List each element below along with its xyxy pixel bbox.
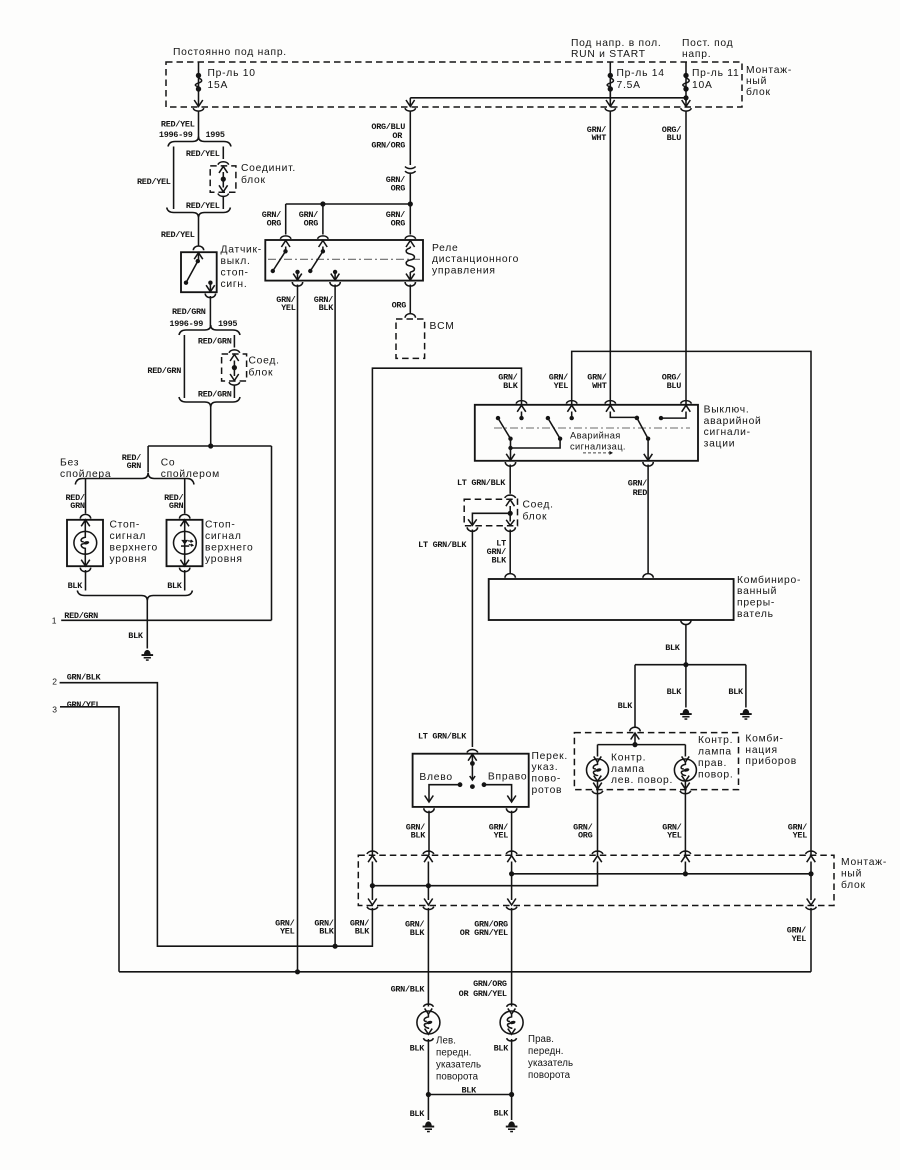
svg-text:LT GRN/BLK: LT GRN/BLK: [418, 732, 467, 742]
Соед. блок dashed box (hazard): [464, 499, 517, 526]
svg-text:блок: блок: [249, 366, 274, 378]
wire RED/YEL from fuse 10: [198, 111, 200, 138]
svg-text:ротов: ротов: [532, 785, 563, 796]
right stop lamp box: [167, 520, 203, 566]
svg-text:преры-: преры-: [737, 598, 775, 609]
brake switch blade: [186, 261, 198, 283]
svg-text:Вправо: Вправо: [488, 772, 527, 783]
svg-text:BLK: BLK: [410, 1043, 426, 1053]
hazard stub GRN/YEL: [571, 412, 573, 419]
svg-text:Влево: Влево: [419, 772, 452, 783]
svg-text:Со: Со: [161, 458, 176, 469]
wire: left drop to spoiler split: [147, 446, 149, 472]
hazard small dashed arrow: [583, 452, 613, 454]
bus B drops: [371, 862, 373, 901]
split brace 1996-99/1995: [168, 137, 231, 147]
svg-text:RED/YEL: RED/YEL: [137, 177, 171, 187]
node: RED/GRN distribution dot: [208, 443, 213, 448]
svg-text:YEL: YEL: [280, 927, 295, 937]
svg-text:верхнего: верхнего: [205, 542, 254, 553]
svg-text:RED/GRN: RED/GRN: [147, 366, 181, 376]
svg-text:RED/YEL: RED/YEL: [186, 149, 220, 159]
wire: right loop down to pin 1 line: [271, 446, 273, 620]
svg-text:зации: зации: [704, 439, 736, 450]
svg-text:Прав.: Прав.: [528, 1034, 554, 1045]
left loop wire GRN/BLK (to hazard): [372, 368, 521, 855]
connector at fuse box exit x=610.3: [606, 100, 615, 107]
svg-text:Контр.: Контр.: [611, 752, 646, 763]
right front turn signal lamp: [500, 1011, 523, 1034]
svg-text:1: 1: [52, 615, 57, 625]
wire GRN/BLK switch to junction block: [428, 811, 430, 856]
svg-text:блок: блок: [241, 174, 266, 186]
svg-text:блок: блок: [841, 879, 866, 891]
svg-text:ный: ный: [841, 869, 862, 880]
relay exit connector x=410.3: [405, 282, 415, 286]
hazard GRN/WHT feed to blade C: [610, 412, 637, 418]
entry connector x=428.4: [423, 851, 434, 854]
connector into turn signal switch: [467, 750, 478, 753]
relay entry wire middle GRN/ORG: [322, 204, 324, 235]
svg-text:Соединит.: Соединит.: [241, 163, 296, 174]
svg-text:GRN/BLK: GRN/BLK: [391, 985, 426, 995]
connector into brake light switch: [193, 246, 203, 250]
connector into right stop lamp: [180, 514, 190, 518]
svg-text:RED/YEL: RED/YEL: [161, 120, 195, 130]
svg-text:YEL: YEL: [792, 934, 807, 944]
svg-text:YEL: YEL: [554, 381, 569, 391]
svg-text:поворота: поворота: [436, 1072, 479, 1083]
junction inside Соед. блок: [508, 511, 513, 516]
svg-text:RED/GRN: RED/GRN: [198, 336, 232, 346]
relay switch blade middle: [322, 247, 324, 252]
svg-text:1995: 1995: [206, 130, 225, 140]
svg-text:верхнего: верхнего: [110, 542, 159, 553]
exit connector x=511.6: [507, 899, 516, 906]
ground: right front turn signal: [508, 1121, 515, 1126]
svg-text:GRN: GRN: [127, 461, 142, 471]
svg-text:уровня: уровня: [205, 554, 243, 565]
svg-text:Соед.: Соед.: [249, 355, 280, 366]
relay entry wire left GRN/ORG: [285, 204, 287, 235]
svg-text:BLK: BLK: [665, 643, 681, 653]
instrument cluster dashed box Комбинация приборов: [574, 733, 738, 790]
svg-text:сигн.: сигн.: [221, 279, 248, 290]
svg-text:уровня: уровня: [110, 554, 148, 565]
junction inside Соед. блок: [232, 365, 237, 370]
flasher box Комбинированный прерыватель: [489, 579, 734, 620]
left stop lamp exit connector: [81, 560, 90, 566]
connector into hazard x=610.3: [605, 401, 616, 404]
pin2 junction dot: [333, 944, 338, 949]
wire GRN/WHT from fuse 14 to hazard: [609, 111, 611, 404]
BLK splice node: [683, 662, 688, 667]
wire BLK below right lamp: [511, 1039, 513, 1095]
svg-text:блок: блок: [746, 86, 771, 98]
split brace RED/GRN: [179, 325, 240, 335]
svg-text:Постоянно под напр.: Постоянно под напр.: [173, 47, 287, 58]
right indicator lamp Контр. лампа прав. повор.: [684, 745, 686, 757]
svg-text:OR: OR: [392, 131, 403, 141]
bus A drops: [511, 862, 513, 901]
cluster exit connector GRN/YEL: [681, 783, 690, 790]
svg-text:3: 3: [52, 704, 57, 714]
left contact GRN/BLK: [458, 782, 463, 787]
wire BLK to ground (right): [745, 665, 747, 708]
svg-text:GRN/ORG: GRN/ORG: [371, 141, 405, 151]
merge brace RED/YEL: [167, 208, 231, 218]
svg-text:OR GRN/YEL: OR GRN/YEL: [459, 989, 507, 999]
BCM dashed box: [396, 319, 425, 358]
fuse box: Монтажный блок (dashed): [166, 62, 742, 107]
wire RED/GRN to stop lamp node: [210, 407, 212, 446]
svg-text:BCM: BCM: [430, 321, 455, 332]
svg-text:2: 2: [52, 677, 57, 687]
svg-text:BLU: BLU: [667, 381, 682, 391]
relay switch blade left: [285, 247, 287, 252]
wire RED/YEL to brake switch: [198, 218, 200, 247]
svg-text:приборов: приборов: [745, 755, 797, 767]
wire GRN/YEL right loop lower: [810, 908, 812, 972]
svg-text:Контр.: Контр.: [698, 735, 733, 746]
svg-text:указатель: указатель: [528, 1058, 573, 1069]
hazard output wire LT GRN/BLK inside: [510, 448, 512, 460]
ground: flasher BLK right: [743, 709, 750, 714]
hazard ORG/BLU stub: [661, 412, 686, 419]
svg-text:BLK: BLK: [319, 303, 335, 313]
svg-text:напр.: напр.: [682, 49, 711, 60]
svg-text:Пр-ль 11: Пр-ль 11: [692, 68, 739, 79]
svg-text:Комбиниро-: Комбиниро-: [737, 574, 801, 586]
left stop lamp box: [67, 520, 103, 566]
relay entry wire right GRN/ORG: [409, 204, 411, 235]
wire 1995 branch lower: [222, 197, 224, 210]
entry connector x=372.4: [367, 851, 378, 854]
hazard stub GRN/BLK: [521, 412, 523, 419]
svg-text:сигнал: сигнал: [205, 531, 242, 542]
connector into cluster (BLK): [630, 727, 640, 731]
svg-text:BLK: BLK: [667, 687, 683, 697]
right loop wire GRN/YEL (to hazard): [572, 351, 811, 855]
svg-text:Соед.: Соед.: [523, 500, 554, 511]
wire ORG/BLU OR GRN/ORG drop from fuse block: [409, 111, 411, 165]
svg-text:пово-: пово-: [532, 774, 562, 785]
cluster BLK bus: [634, 733, 636, 745]
svg-text:1996-99: 1996-99: [159, 130, 193, 140]
exit connector x=428.4: [424, 899, 433, 906]
svg-text:1996-99: 1996-99: [169, 319, 203, 329]
svg-text:сигнал: сигнал: [110, 531, 147, 542]
svg-text:GRN/YEL: GRN/YEL: [67, 700, 101, 710]
connector into left stop lamp: [80, 514, 90, 518]
wire GRN/RED hazard to flasher: [647, 465, 649, 574]
svg-text:ный: ный: [746, 76, 767, 87]
wire BLK flasher output: [685, 625, 687, 665]
svg-text:Без: Без: [60, 458, 79, 469]
hazard blade C: [637, 418, 648, 439]
wire GRN/ORG OR GRN/YEL to right front turn signal: [511, 908, 513, 1007]
svg-text:Перек.: Перек.: [532, 751, 568, 762]
entry connector x=811: [806, 851, 817, 854]
svg-text:нация: нация: [745, 745, 777, 756]
split brace spoiler variants: [75, 473, 194, 485]
connector into hazard x=571.7: [566, 401, 577, 404]
right contact GRN/YEL: [482, 782, 487, 787]
svg-text:дистанционного: дистанционного: [432, 254, 519, 265]
entry connector x=511.6: [506, 851, 517, 854]
connector out right (LT GRN/BLK): [506, 520, 514, 526]
wire BLK to instrument cluster: [634, 665, 636, 727]
svg-text:повор.: повор.: [698, 769, 733, 780]
svg-text:ORG: ORG: [267, 218, 282, 228]
hazard blade A: [498, 418, 511, 439]
wire LT GRN/BLK to flasher: [509, 530, 511, 574]
svg-text:управления: управления: [432, 266, 496, 277]
wire GRN/YEL switch to junction block: [511, 811, 513, 856]
svg-text:Лев.: Лев.: [436, 1036, 456, 1047]
svg-text:ванный: ванный: [737, 586, 777, 597]
inline connector on ORG/BLU wire: [405, 167, 416, 169]
svg-text:BLK: BLK: [411, 831, 427, 841]
svg-text:WHT: WHT: [592, 133, 607, 143]
switch pole wire: [471, 754, 473, 763]
left stop lamp bulb: [81, 520, 90, 527]
svg-text:Монтаж-: Монтаж-: [746, 65, 792, 76]
svg-text:ORG: ORG: [391, 218, 406, 228]
wire RED/GRN 1996-99 branch: [183, 335, 185, 398]
switch arrow entering box: [194, 253, 203, 260]
hazard output link: [511, 439, 561, 448]
svg-text:GRN: GRN: [70, 501, 85, 511]
wire GRN/YEL relay to line3: [297, 285, 299, 972]
svg-text:Под напр. в пол.: Под напр. в пол.: [571, 38, 661, 49]
svg-text:BLK: BLK: [618, 701, 634, 711]
svg-text:Выключ.: Выключ.: [704, 404, 750, 415]
connector into Соед. блок: [229, 350, 240, 353]
svg-text:GRN/BLK: GRN/BLK: [67, 672, 102, 682]
right stop lamp bulb (with arrow): [180, 520, 189, 527]
connector into flasher (LT GRN/BLK): [505, 574, 515, 578]
svg-text:RUN и START: RUN и START: [571, 49, 646, 60]
svg-text:ORG: ORG: [392, 300, 407, 310]
hazard blade B: [548, 418, 560, 439]
Соединит. блок dashed box: [210, 166, 236, 192]
svg-text:10А: 10А: [692, 80, 713, 91]
wire to right stop lamp RED/GRN: [184, 479, 186, 514]
brake light switch box Датчик-выкл. стоп-сигн.: [181, 252, 217, 292]
pin3 junction dot: [295, 969, 300, 974]
wire 1995 branch upper: [222, 147, 224, 160]
svg-text:лампа: лампа: [698, 747, 732, 758]
wire GRN/BLK to left front turn signal: [427, 908, 429, 1007]
svg-text:BLK: BLK: [410, 1109, 426, 1119]
svg-text:BLK: BLK: [167, 581, 183, 591]
switch output arrow + connector: [206, 285, 215, 292]
svg-text:сигнали-: сигнали-: [704, 427, 751, 438]
wire RED/GRN below switch: [209, 296, 211, 327]
exit connector x=811: [807, 899, 816, 906]
Соед. блок dashed box (left): [222, 354, 247, 381]
connector out of Соед. блок: [230, 374, 239, 381]
ground: flasher BLK middle: [683, 709, 690, 714]
svg-text:Пр-ль 10: Пр-ль 10: [208, 68, 256, 79]
wire BLK to left ground: [427, 1095, 429, 1121]
svg-text:BLK: BLK: [461, 1085, 477, 1095]
svg-text:Датчик-: Датчик-: [221, 245, 263, 256]
svg-text:1995: 1995: [218, 319, 237, 329]
wire BLK to ground: [146, 601, 148, 649]
fuse F11 Пр-ль 11 10A: [685, 62, 687, 101]
svg-text:Стоп-: Стоп-: [205, 520, 236, 531]
svg-text:Аварийная: Аварийная: [570, 430, 621, 440]
svg-text:YEL: YEL: [281, 303, 296, 313]
svg-text:BLU: BLU: [667, 133, 682, 143]
wire RED/GRN 1995 branch lower: [233, 385, 235, 398]
ground: left front turn signal: [425, 1121, 432, 1126]
connector into hazard x=521.5: [516, 401, 527, 404]
wire LT GRN/BLK to turn signal switch: [471, 530, 473, 748]
svg-text:прав.: прав.: [698, 758, 727, 769]
relay output stub GRN/YEL: [295, 270, 299, 274]
svg-text:15А: 15А: [208, 80, 229, 91]
connector into relay x=322.9: [318, 236, 329, 239]
connector at fuse box exit x=410.3: [406, 100, 415, 107]
svg-text:RED/GRN: RED/GRN: [198, 389, 232, 399]
flasher output socket: [681, 620, 691, 625]
svg-text:YEL: YEL: [667, 831, 682, 841]
wire ORG relay to BCM: [409, 285, 411, 314]
svg-text:сигнализац.: сигнализац.: [570, 442, 626, 452]
svg-text:ORG: ORG: [391, 183, 406, 193]
svg-text:BLK: BLK: [319, 927, 335, 937]
junction inside Соединит. блок: [221, 177, 226, 182]
wire BLK below left lamp: [85, 570, 87, 591]
wire GRN/BLK left loop to pin2 node: [335, 908, 372, 946]
relay feed bus GRN/ORG: [286, 203, 411, 205]
svg-text:Стоп-: Стоп-: [110, 520, 141, 531]
svg-text:BLK: BLK: [68, 581, 84, 591]
right stop lamp exit connector: [180, 560, 189, 566]
wire BLK below left lamp: [427, 1039, 429, 1095]
cluster exit connector GRN/ORG: [593, 783, 602, 790]
hazard mechanical dash-dot link: [494, 427, 690, 429]
svg-text:BLK: BLK: [728, 687, 744, 697]
svg-text:указатель: указатель: [436, 1060, 481, 1071]
junction block dashed box Монтажный блок (lower): [358, 855, 834, 905]
brake switch output stub: [208, 281, 212, 285]
connector into Соед. блок (hazard): [505, 495, 516, 498]
merge brace RED/GRN: [179, 397, 240, 407]
svg-text:OR GRN/YEL: OR GRN/YEL: [460, 928, 508, 938]
connector at fuse box exit x=198.5: [194, 100, 203, 107]
relay coil: [409, 247, 411, 249]
svg-text:7.5А: 7.5А: [617, 80, 641, 91]
wire BLK to right ground: [511, 1095, 513, 1121]
cluster exit GRN/YEL: [684, 781, 686, 855]
connector at fuse box exit x=686: [682, 100, 691, 107]
svg-text:Монтаж-: Монтаж-: [841, 857, 887, 868]
svg-text:LT GRN/BLK: LT GRN/BLK: [457, 478, 506, 488]
svg-text:Пр-ль 14: Пр-ль 14: [617, 68, 665, 79]
merge brace BLK stop lamps: [77, 591, 192, 601]
svg-text:GRN: GRN: [169, 501, 184, 511]
svg-text:LT GRN/BLK: LT GRN/BLK: [418, 540, 467, 550]
connector into relay x=285.7: [280, 236, 291, 239]
svg-text:BLK: BLK: [494, 1043, 510, 1053]
svg-text:YEL: YEL: [793, 831, 808, 841]
connector into relay x=410.3: [405, 236, 416, 239]
fuse F10 Пр-ль 10 15A: [198, 62, 200, 101]
left front turn signal lamp: [417, 1011, 440, 1034]
wire LT GRN/BLK hazard to Соед. блок: [509, 465, 511, 494]
ground: stop lamps: [144, 650, 151, 655]
svg-text:стоп-: стоп-: [221, 267, 249, 278]
relay exit connector x=335.1: [330, 282, 340, 286]
connector into flasher (GRN/RED): [643, 574, 653, 578]
hazard exit connector LT GRN/BLK: [505, 462, 515, 466]
wire BLK to ground (middle): [685, 665, 687, 708]
svg-text:RED: RED: [633, 488, 648, 498]
svg-text:YEL: YEL: [494, 831, 509, 841]
svg-text:лев. повор.: лев. повор.: [611, 775, 673, 786]
connector into hazard x=686: [681, 401, 692, 404]
exit connector GRN/BLK: [424, 808, 434, 812]
bus wire from fuse 11 to ORG/BLU drop: [410, 97, 686, 99]
connector out of Соединит. блок: [219, 185, 228, 192]
svg-text:RED/YEL: RED/YEL: [161, 230, 195, 240]
wire to left stop lamp RED/GRN: [85, 479, 87, 514]
wire 1996-99 branch: [173, 147, 175, 210]
bus A GRN/YEL inside block: [512, 873, 811, 875]
left indicator lamp Контр. лампа лев. повор.: [597, 745, 599, 757]
wire RED/GRN 1995 branch upper: [233, 335, 235, 348]
wire BLK below right lamp: [184, 570, 186, 591]
svg-text:BLK: BLK: [355, 927, 371, 937]
line3 GRN/YEL horizontal: [119, 971, 811, 973]
svg-text:лампа: лампа: [611, 764, 645, 775]
svg-text:блок: блок: [523, 511, 548, 523]
mechanical dash-dot link in relay: [268, 258, 420, 260]
BLK tie line between lamps: [428, 1094, 511, 1096]
svg-text:BLK: BLK: [494, 1109, 510, 1119]
branch wire inside Соед. блок: [472, 513, 510, 525]
entry connector x=685.4: [680, 851, 691, 854]
svg-text:выкл.: выкл.: [221, 256, 251, 267]
svg-text:Реле: Реле: [432, 243, 459, 254]
wire: stop lamp top rail: [148, 445, 271, 447]
svg-text:поворота: поворота: [528, 1070, 571, 1081]
svg-text:ORG: ORG: [304, 218, 319, 228]
svg-text:RED/GRN: RED/GRN: [64, 611, 98, 621]
relay output stub GRN/BLK: [333, 270, 337, 274]
cluster exit GRN/ORG: [597, 781, 599, 855]
wire GRN/BLK relay to line2: [334, 285, 336, 947]
turn signal switch box Перек. указ. поворотов: [413, 754, 529, 807]
entry connector x=597.5: [592, 851, 603, 854]
bus B GRN/BLK inside block: [372, 862, 597, 886]
svg-text:BLK: BLK: [410, 928, 426, 938]
svg-text:BLK: BLK: [491, 555, 507, 565]
svg-text:аварийной: аварийной: [704, 416, 762, 427]
relay exit connector x=297.5: [292, 282, 302, 286]
hazard switch box Выключ. аварийной сигнализации: [475, 405, 698, 461]
relay box Реле дистанционного управления: [265, 240, 423, 281]
svg-text:RED/GRN: RED/GRN: [172, 307, 206, 317]
svg-text:передн.: передн.: [436, 1048, 472, 1059]
svg-text:ORG: ORG: [578, 831, 593, 841]
hazard exit connector GRN/RED: [643, 462, 653, 466]
connector into Соединит. блок: [218, 162, 229, 165]
